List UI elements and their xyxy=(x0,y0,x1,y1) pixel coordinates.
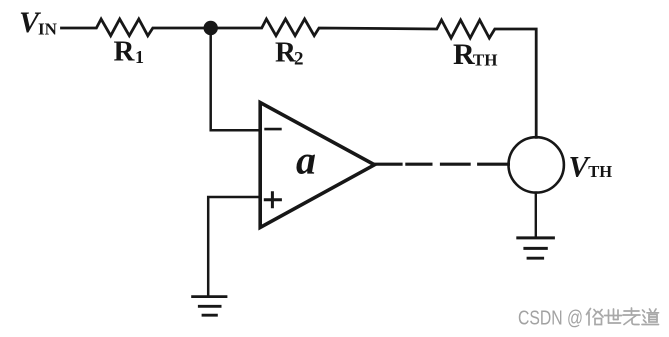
svg-text:TH: TH xyxy=(588,162,612,181)
svg-text:IN: IN xyxy=(38,20,58,39)
svg-text:CSDN @: CSDN @ xyxy=(518,308,583,330)
svg-text:a: a xyxy=(296,137,316,182)
svg-text:2: 2 xyxy=(294,49,304,70)
svg-text:R: R xyxy=(453,38,475,71)
svg-text:TH: TH xyxy=(473,50,498,69)
svg-text:R: R xyxy=(114,35,136,67)
svg-text:1: 1 xyxy=(135,47,144,67)
